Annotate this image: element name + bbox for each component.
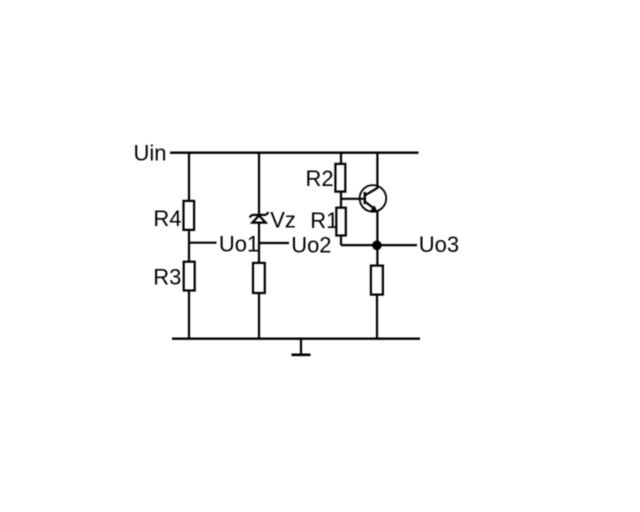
- wire load resistor to ground rail: [376, 296, 378, 339]
- wire Uin rail to zener top: [258, 153, 260, 214]
- zener diode Vz: [250, 212, 269, 222]
- resistor R4: [184, 201, 195, 230]
- resistor right (emitter load): [371, 266, 383, 295]
- resistor R1: [336, 208, 346, 236]
- svg-text:Uo3: Uo3: [419, 232, 459, 257]
- wire R1 bottom to Uo3 node: [340, 237, 342, 246]
- wire Uin rail to R2 top: [340, 153, 342, 163]
- wire top rail Uin: [170, 151, 419, 153]
- wire node Uo1 lead: [188, 242, 217, 244]
- resistor R3: [184, 262, 195, 291]
- wire R3 bottom to ground rail: [188, 291, 190, 339]
- resistor mid (below Vz): [253, 263, 265, 293]
- wire mid resistor to ground rail: [258, 294, 260, 339]
- wire zener to mid resistor: [258, 223, 260, 262]
- svg-text:R2: R2: [306, 166, 334, 191]
- resistor R2: [335, 164, 345, 192]
- svg-text:Uo2: Uo2: [291, 233, 331, 258]
- wire R4 bottom to R3 top: [188, 231, 190, 261]
- transistor Q1: [360, 185, 387, 213]
- svg-text:Uo1: Uo1: [219, 232, 259, 257]
- wire base of Q1: [341, 198, 364, 200]
- svg-text:R1: R1: [310, 208, 338, 233]
- wire R2 bottom to R1 top: [340, 193, 342, 208]
- wire bottom rail: [172, 338, 420, 340]
- wire node Uo2 lead: [259, 242, 289, 244]
- svg-text:R4: R4: [153, 206, 181, 231]
- wire Q1 emitter down through Uo3 node to resistor: [376, 211, 378, 265]
- svg-text:Uin: Uin: [134, 141, 167, 166]
- wire Uin rail to Q1 collector: [376, 153, 378, 189]
- svg-text:R3: R3: [153, 265, 181, 290]
- ground: [292, 339, 311, 355]
- node junction dot Uo3: [372, 241, 382, 251]
- wire Uin rail to R4 top: [188, 153, 190, 200]
- wire node Uo3 horizontal: [341, 244, 417, 246]
- svg-text:Vz: Vz: [270, 208, 296, 233]
